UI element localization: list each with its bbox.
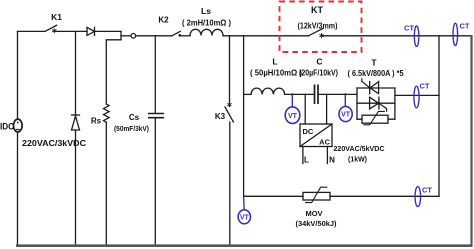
- CT sensor 3: [414, 86, 419, 108]
- diode D1 (series): [87, 27, 95, 35]
- diode D2 (vertical, freewheel): [72, 114, 80, 116]
- thyristor stack T right bus: [394, 88, 396, 119]
- K1 actuate star: [53, 29, 56, 33]
- switch K1: [45, 25, 57, 31]
- svg-text:IDC: IDC: [0, 121, 14, 131]
- wire K2 to Ls: [181, 35, 191, 37]
- thyristor T2 (points right): [370, 97, 379, 109]
- wire PFN left rail: [243, 36, 245, 197]
- svg-text:CT: CT: [460, 22, 470, 31]
- node step connector: [120, 31, 122, 39]
- wire top segment to K1: [18, 30, 46, 32]
- svg-text:Cs: Cs: [129, 113, 140, 122]
- VT sensor 3 lead: [243, 196, 246, 210]
- svg-text:( 2mH/10mΩ ): ( 2mH/10mΩ ): [182, 19, 231, 28]
- VT sensor 3: [238, 210, 250, 224]
- KT actuate star: [320, 34, 323, 38]
- svg-text:CT: CT: [404, 24, 414, 33]
- svg-text:K1: K1: [51, 12, 62, 22]
- wire KT to right corner: [323, 35, 471, 37]
- svg-text:(50mF/3kV): (50mF/3kV): [114, 124, 149, 133]
- CT sensor 1: [414, 26, 419, 46]
- wire T output to mid rail: [395, 94, 439, 96]
- wire contact to K2: [136, 35, 172, 37]
- thyristor stack T left bus: [356, 88, 358, 119]
- wire Ls to KT: [223, 35, 309, 37]
- wire DC/AC input left: [304, 94, 306, 124]
- svg-text:DC: DC: [303, 127, 314, 136]
- wire Cs branch top: [154, 36, 156, 113]
- wire output L stub: [302, 147, 304, 164]
- varistor of T: [362, 115, 388, 123]
- resistor Rs: [104, 104, 110, 122]
- svg-text:K3: K3: [215, 112, 226, 121]
- VT sensor 2: [339, 106, 352, 121]
- node K3 branch: [229, 36, 231, 107]
- svg-text:AC: AC: [319, 138, 330, 147]
- DC/AC converter box U1: [300, 124, 332, 147]
- svg-text:VT: VT: [288, 113, 298, 120]
- svg-text:220VAC/5kVDC: 220VAC/5kVDC: [334, 144, 386, 153]
- wire Rs to bottom rail: [105, 122, 107, 245]
- thyristor T1 (points left): [369, 82, 371, 94]
- svg-text:( 50µH/10mΩ ): ( 50µH/10mΩ ): [250, 69, 302, 78]
- K3 actuate star: [228, 103, 231, 107]
- svg-text:L: L: [304, 156, 309, 165]
- svg-text:CT: CT: [420, 82, 430, 91]
- switch K3: [225, 107, 233, 122]
- wire output N stub: [326, 147, 328, 164]
- svg-text:(34kV/50kJ): (34kV/50kJ): [296, 219, 337, 228]
- switch K2: [172, 31, 180, 35]
- svg-text:KT: KT: [311, 5, 323, 15]
- svg-text:T: T: [371, 58, 377, 68]
- VT sensor 2 lead: [344, 94, 346, 106]
- wire bottom gray rail: [16, 244, 472, 247]
- svg-text:Rs: Rs: [91, 117, 102, 126]
- switch KT: [309, 29, 323, 36]
- svg-text:L: L: [272, 57, 277, 67]
- wire MOV to mid rail: [330, 195, 439, 197]
- svg-text:(12kV/3mm): (12kV/3mm): [298, 22, 338, 31]
- wire to contact circle: [121, 35, 131, 37]
- wire hook to Rs branch: [106, 40, 121, 104]
- wire right gray rail: [470, 35, 472, 247]
- wire to inductor L: [244, 93, 251, 95]
- MOV varistor: [303, 192, 330, 200]
- svg-text:VT: VT: [240, 214, 250, 221]
- svg-text:220VAC/3kVDC: 220VAC/3kVDC: [22, 138, 86, 148]
- wire right mid rail: [438, 36, 440, 197]
- T top branch wire: [357, 87, 395, 89]
- svg-text:(20µF/10kV): (20µF/10kV): [299, 69, 338, 78]
- wire left vertical rail: [17, 31, 19, 245]
- VT sensor 1 lead: [291, 94, 293, 107]
- wire MOV rail bottom: [244, 195, 303, 197]
- svg-text:MOV: MOV: [305, 209, 322, 218]
- svg-text:Ls: Ls: [201, 6, 211, 16]
- svg-text:( 6.5kV/800A ) *5: ( 6.5kV/800A ) *5: [348, 69, 405, 78]
- wire C to thyristor stack T: [318, 93, 357, 95]
- node junction to freewheel diode: [75, 31, 77, 115]
- wire below D2 to bottom rail: [75, 130, 77, 246]
- wire K3 to bottom rail: [229, 122, 231, 246]
- T middle branch wire: [357, 102, 395, 104]
- svg-text:K2: K2: [158, 16, 169, 25]
- KT dashed red enclosure: [280, 2, 362, 53]
- node VT1 junction: [291, 93, 293, 95]
- CT sensor 2: [453, 23, 458, 45]
- capacitor C: [315, 85, 319, 103]
- VT sensor 1: [285, 107, 300, 124]
- wire L to capacitor C: [285, 93, 315, 95]
- wire DC/AC input right: [326, 94, 328, 124]
- inductor L: [251, 88, 285, 94]
- DC source VDC: [13, 119, 22, 132]
- contact circle node: [131, 34, 136, 39]
- svg-text:C: C: [316, 57, 322, 67]
- wire Cs to bottom rail: [154, 119, 156, 246]
- svg-text:CT: CT: [422, 186, 432, 195]
- node VT2 junction: [344, 93, 346, 95]
- svg-text:VT: VT: [341, 112, 351, 119]
- capacitor Cs: [149, 114, 164, 118]
- T varistor branch wire: [357, 118, 395, 120]
- wire from D1 to step node: [95, 30, 122, 32]
- CT sensor 4: [415, 187, 421, 207]
- svg-text:N: N: [329, 156, 335, 165]
- inductor Ls: [190, 29, 223, 35]
- svg-text:(1kW): (1kW): [348, 155, 367, 164]
